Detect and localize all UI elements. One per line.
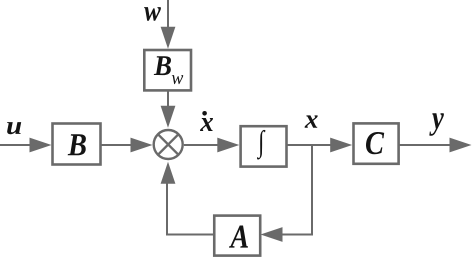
label B — [68, 134, 86, 155]
wire feedback to A — [281, 234, 313, 236]
wire Bw to summing junction — [167, 90, 169, 107]
summing junction X second stroke — [158, 134, 179, 155]
block Bw — [144, 50, 191, 90]
label w — [144, 7, 161, 21]
node branch of x to feedback — [311, 145, 313, 236]
integral sign — [257, 130, 265, 160]
arrowhead into Bw — [161, 27, 176, 49]
wire C to output — [399, 144, 451, 146]
label C — [366, 132, 384, 154]
label x — [305, 115, 318, 127]
label u — [7, 122, 21, 134]
label A — [229, 226, 248, 248]
arrowhead into summing junction bottom — [161, 162, 176, 184]
arrowhead output — [450, 138, 472, 153]
label Bw — [154, 56, 171, 75]
wire summing junction to integrator — [184, 144, 219, 146]
block A — [214, 216, 260, 256]
summing junction circle — [154, 130, 183, 159]
arrowhead into C — [330, 138, 352, 153]
arrowhead into A — [261, 227, 283, 242]
wire A to riser — [167, 183, 214, 235]
wire u input — [0, 144, 31, 146]
arrowhead into integrator — [217, 138, 239, 153]
label y — [429, 113, 444, 136]
label x-dot dot — [202, 111, 207, 116]
label x-dot x glyph — [200, 118, 213, 131]
block B — [53, 124, 101, 165]
wire B to summing junction — [101, 144, 133, 146]
block C — [354, 123, 399, 163]
summing junction X — [158, 134, 179, 155]
wire integrator to C — [287, 144, 333, 146]
wire w input — [167, 0, 169, 28]
arrowhead into summing junction left — [131, 138, 153, 153]
arrowhead into B — [30, 138, 52, 153]
arrowhead into summing junction top — [161, 106, 176, 128]
block integrator — [241, 126, 287, 166]
